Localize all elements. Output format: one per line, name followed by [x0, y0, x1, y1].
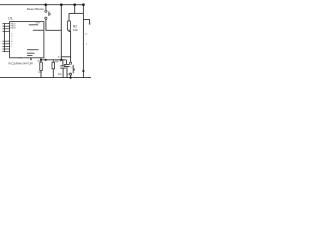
svg-text:4M: 4M [55, 61, 58, 64]
svg-text:22p: 22p [58, 73, 63, 76]
svg-text:U1: U1 [8, 17, 12, 21]
svg-text:22p: 22p [67, 73, 72, 76]
svg-text:Reset Button: Reset Button [27, 7, 45, 11]
svg-text:CLK: CLK [19, 57, 24, 59]
svg-text:10k: 10k [73, 28, 78, 32]
